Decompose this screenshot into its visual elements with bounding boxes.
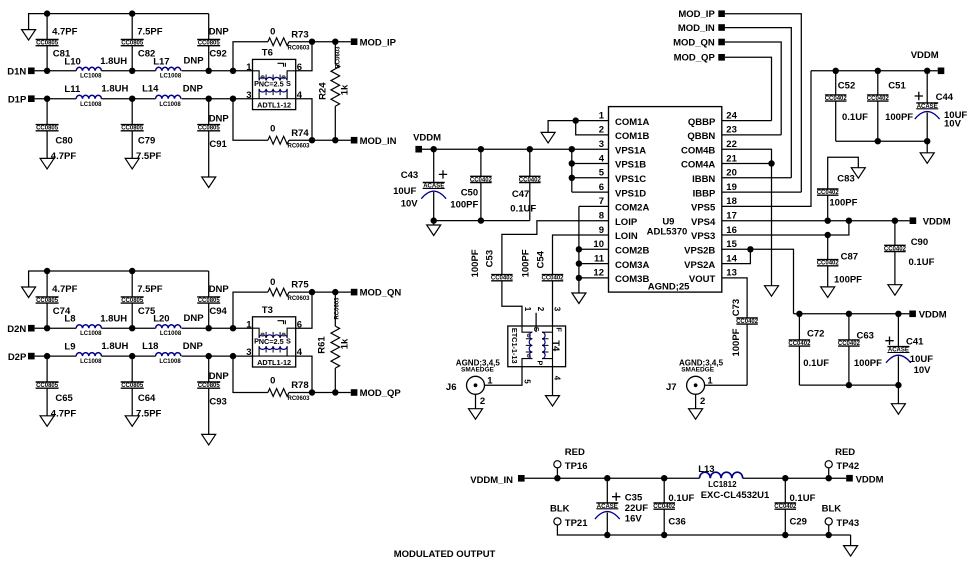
power VDDM output pad: [846, 475, 853, 482]
wire C80 bottom: [46, 131, 48, 159]
svg-text:IBBN: IBBN: [692, 174, 715, 185]
node D2N/C75: [129, 325, 135, 331]
svg-text:MOD_QP: MOD_QP: [360, 388, 402, 399]
node C29/rail: [782, 475, 788, 481]
wire L18 to transformer T3: [182, 355, 253, 357]
svg-text:VPS5: VPS5: [691, 203, 716, 214]
port D1P pad: [28, 95, 35, 102]
svg-text:LC1008: LC1008: [80, 102, 102, 108]
node D1N/R73: [230, 68, 236, 74]
resistor R75 0: [268, 288, 289, 296]
wire pin5 VPS1C: [572, 177, 609, 179]
svg-text:C90: C90: [911, 237, 928, 248]
wire C87 to ground: [827, 266, 829, 287]
svg-text:J7: J7: [666, 382, 677, 393]
wire to ground: [897, 385, 899, 404]
inductor L18 DNP: [156, 353, 181, 357]
svg-text:C64: C64: [138, 393, 156, 404]
wire top bus: [29, 271, 209, 287]
wire pin12 COM3B: [579, 277, 609, 279]
svg-text:L11: L11: [64, 84, 81, 95]
wire L9 to L18: [101, 355, 155, 357]
wire C80 top: [46, 99, 48, 125]
wire C51 bottom: [877, 101, 879, 141]
wire VDDM_IN rail to L13: [525, 477, 700, 479]
wire COM2 tie vertical: [578, 206, 580, 293]
svg-text:VPS1A: VPS1A: [615, 145, 646, 156]
svg-text:0.1UF: 0.1UF: [803, 358, 829, 369]
svg-text:4: 4: [553, 376, 562, 381]
svg-text:RC0603: RC0603: [336, 46, 342, 69]
svg-text:DNP: DNP: [209, 284, 230, 295]
svg-text:19: 19: [726, 182, 737, 193]
capacitor C41 10UF 10V: [897, 314, 899, 347]
svg-text:NC=2.5: NC=2.5: [259, 337, 284, 346]
wire pin20 IBBN: [722, 177, 792, 179]
wire L11 to L14: [101, 98, 155, 100]
svg-text:4.7PF: 4.7PF: [52, 284, 78, 295]
svg-text:C41: C41: [906, 336, 924, 347]
svg-text:LOIP: LOIP: [615, 217, 638, 228]
wire J7 pin1 to C73: [705, 384, 748, 386]
resistor R61 1k: [331, 326, 340, 368]
ground: [427, 225, 441, 236]
svg-text:VPS2B: VPS2B: [684, 246, 715, 257]
wire C44 bottom: [926, 113, 928, 142]
svg-text:RC0603: RC0603: [287, 396, 310, 402]
svg-text:15: 15: [726, 239, 737, 250]
wire C63 bottom: [848, 346, 850, 385]
svg-text:DNP: DNP: [209, 113, 230, 124]
svg-text:C72: C72: [807, 329, 824, 340]
resistor R74 0: [268, 136, 289, 144]
wire C93 bottom: [208, 388, 210, 434]
wire C92 bottom: [208, 46, 210, 71]
svg-text:22: 22: [726, 139, 737, 150]
svg-text:7.5PF: 7.5PF: [136, 151, 162, 162]
wire MOD_IN to IBBN: [725, 28, 791, 178]
svg-text:L20: L20: [153, 314, 169, 325]
svg-text:C65: C65: [55, 393, 73, 404]
svg-text:100PF: 100PF: [731, 328, 742, 356]
node bus/C82: [129, 10, 135, 16]
svg-text:10V: 10V: [944, 118, 962, 129]
svg-text:F: F: [555, 327, 564, 332]
wire R61 bottom lead: [334, 368, 336, 392]
wire C36 bottom: [663, 509, 665, 535]
svg-text:6: 6: [599, 182, 604, 193]
svg-text:NC=2.5: NC=2.5: [259, 79, 284, 88]
svg-text:0.1UF: 0.1UF: [842, 112, 868, 123]
svg-text:0.1UF: 0.1UF: [790, 493, 816, 504]
capacitor C82 7.5PF: [121, 40, 144, 46]
wire transformer pin4 to R74: [296, 99, 312, 141]
svg-text:C54: C54: [535, 250, 546, 268]
wire D2P junction to R78: [233, 356, 268, 392]
inductor L11 1.8UH: [76, 95, 101, 99]
svg-text:100PF: 100PF: [520, 249, 531, 277]
node D1P/R74: [230, 96, 236, 102]
wire C90 to ground: [894, 252, 896, 285]
wire R24 top lead: [334, 42, 336, 64]
svg-text:RC0603: RC0603: [335, 297, 341, 320]
test point TP42 RED: [825, 461, 832, 468]
svg-text:P: P: [536, 360, 545, 365]
svg-text:MOD_QP: MOD_QP: [674, 53, 716, 64]
capacitor C43 10UF 10V: [433, 149, 435, 182]
node R75/transformer pin6: [309, 289, 315, 295]
svg-text:ADTL1-12: ADTL1-12: [257, 358, 291, 367]
svg-text:C35: C35: [625, 492, 643, 503]
svg-text:1.8UH: 1.8UH: [101, 341, 128, 352]
resistor R78 0: [268, 389, 289, 397]
svg-text:RC0603: RC0603: [287, 46, 310, 52]
node C41/gnd: [895, 382, 901, 388]
svg-text:DNP: DNP: [183, 84, 204, 95]
wire COM1A to ground: [548, 121, 576, 133]
node VPS2A/VPS2B: [747, 246, 753, 252]
wire R73 to MOD_IP pad: [289, 41, 351, 43]
test point TP16 RED: [554, 461, 561, 468]
wire pin18 VPS5 to VDDM rail: [722, 71, 811, 207]
wire C82 bottom: [131, 46, 133, 71]
svg-text:C93: C93: [209, 396, 226, 407]
ground: [40, 416, 54, 427]
wire C93 top: [208, 356, 210, 382]
svg-text:D2P: D2P: [8, 352, 27, 363]
ground: [821, 287, 835, 298]
wire MOD_QP to QBBP: [725, 57, 772, 120]
capacitor C93 DNP: [197, 382, 220, 388]
svg-text:MOD_QN: MOD_QN: [673, 37, 715, 48]
power VDDM top-right rail: [811, 70, 938, 72]
svg-text:VPS1B: VPS1B: [615, 160, 646, 171]
inductor L10 1.8UH: [76, 67, 101, 71]
svg-text:J6: J6: [446, 382, 457, 393]
node D2N/C74: [44, 325, 50, 331]
wire C41 bottom: [897, 356, 899, 385]
wire pin17 VPS4 to VDDM: [722, 220, 910, 222]
wire C82 top: [131, 14, 133, 40]
svg-text:4.7PF: 4.7PF: [51, 151, 77, 162]
node D2N/R75: [230, 325, 236, 331]
svg-text:VPS4: VPS4: [691, 217, 716, 228]
svg-text:VDDM: VDDM: [919, 310, 947, 321]
svg-text:R61: R61: [316, 336, 327, 354]
svg-text:IBBP: IBBP: [693, 188, 716, 199]
node VDDM/C50: [478, 146, 484, 152]
svg-text:CC0805: CC0805: [121, 41, 144, 47]
capacitor C90 0.1UF: [894, 221, 896, 246]
node C36/gnd: [661, 532, 667, 538]
ground: [765, 286, 779, 297]
ground: [469, 409, 483, 420]
transformer T4 ETC1-1-13: [508, 326, 566, 367]
svg-text:1.8UH: 1.8UH: [101, 84, 128, 95]
svg-text:RED: RED: [565, 447, 585, 458]
wire C64 top: [131, 356, 133, 382]
wire L17 to transformer T6: [182, 70, 253, 72]
inductor L20 DNP: [156, 325, 181, 329]
svg-text:MODULATED OUTPUT: MODULATED OUTPUT: [394, 549, 496, 560]
wire C94 bottom: [208, 303, 210, 328]
wire C35 bottom: [606, 513, 608, 536]
wire C92 top: [208, 14, 210, 40]
capacitor C64 7.5PF: [121, 382, 144, 388]
node VDDM/C63: [846, 311, 852, 317]
wire L14 to transformer T6: [182, 98, 253, 100]
wire transformer pin4 to R78: [296, 356, 312, 392]
inductor L17 DNP: [156, 67, 181, 71]
svg-text:C47: C47: [512, 189, 529, 200]
wire C52/C51/C44 ground rail: [836, 140, 928, 142]
port VDDM_IN pad: [518, 475, 525, 482]
op-amp U9 ADL5370 body: [609, 107, 722, 293]
svg-text:D2N: D2N: [7, 324, 26, 335]
ground: [202, 434, 216, 445]
svg-text:LC1008: LC1008: [80, 359, 102, 365]
svg-text:RED: RED: [835, 447, 855, 458]
wire D1N to L10: [35, 70, 77, 72]
svg-text:COM1B: COM1B: [615, 131, 649, 142]
wire bottom ground rail: [557, 525, 850, 535]
inductor L13 EXC-CL4532U1: [700, 472, 743, 478]
node TP16/rail: [554, 475, 560, 481]
svg-text:7.5PF: 7.5PF: [136, 408, 162, 419]
wire C83 bottom to VPS4 rail: [827, 195, 829, 221]
svg-text:7.5PF: 7.5PF: [137, 284, 163, 295]
port MOD_QP pad: [351, 389, 358, 396]
wire to ground: [433, 221, 435, 225]
node R78/transformer pin4: [309, 389, 315, 395]
capacitor C73 100PF: [736, 318, 758, 324]
svg-text:T6: T6: [262, 47, 273, 58]
wire pin13 VOUT to C73: [722, 278, 747, 318]
capacitor C92 DNP: [197, 40, 220, 46]
svg-text:VOUT: VOUT: [689, 274, 716, 285]
svg-text:10V: 10V: [401, 198, 419, 209]
wire T4 pin5 to J6: [485, 367, 523, 386]
svg-text:C80: C80: [55, 136, 72, 147]
ground: [888, 285, 902, 296]
wire C81 bottom: [46, 46, 48, 71]
wire C79 bottom: [131, 131, 133, 159]
wire D1P junction to R74: [233, 99, 268, 141]
ground: [689, 409, 703, 420]
svg-text:C91: C91: [209, 139, 227, 150]
node bus/C75: [129, 268, 135, 274]
svg-text:3: 3: [246, 347, 251, 358]
svg-text:100PF: 100PF: [470, 249, 481, 277]
svg-text:BLK: BLK: [822, 503, 842, 514]
wire pin24 QBBP: [722, 120, 772, 122]
svg-text:20: 20: [726, 168, 737, 179]
svg-text:100PF: 100PF: [854, 358, 882, 369]
ground: [541, 132, 555, 143]
svg-text:TP43: TP43: [836, 518, 859, 529]
capacitor C50 100PF: [480, 149, 482, 176]
node COM1A/COM1B: [573, 117, 579, 123]
wire C29 bottom: [784, 509, 786, 535]
svg-text:10V: 10V: [914, 365, 932, 376]
svg-text:17: 17: [726, 211, 737, 222]
svg-text:COM2A: COM2A: [615, 203, 649, 214]
wire C75 bottom: [131, 303, 133, 328]
wire LOIN to C54: [553, 235, 609, 275]
wire D1N junction to R73: [233, 42, 268, 71]
node C35/rail: [604, 475, 610, 481]
wire L13 to VDDM out: [743, 477, 847, 479]
test point TP43 BLK: [825, 518, 832, 525]
node C83/VPS4: [825, 218, 831, 224]
port MOD_IN pad: [351, 137, 358, 144]
wire pin7 COM2A: [579, 205, 609, 207]
svg-text:T4: T4: [550, 340, 561, 352]
wire C75 top: [131, 271, 133, 297]
svg-text:DNP: DNP: [209, 371, 230, 382]
svg-text:5: 5: [599, 168, 605, 179]
capacitor C72 0.1UF: [798, 314, 800, 340]
node D1N/C92: [206, 68, 212, 74]
node TP42/rail: [826, 475, 832, 481]
svg-text:14: 14: [726, 253, 737, 264]
svg-text:0: 0: [270, 123, 275, 134]
capacitor C54 100PF: [542, 275, 564, 281]
svg-text:1: 1: [487, 375, 493, 386]
ground: [891, 404, 905, 415]
node COM3A junction: [576, 260, 582, 266]
svg-text:VDDM_IN: VDDM_IN: [470, 475, 513, 486]
power VDDM pad: [415, 146, 422, 153]
node C29/gnd: [782, 532, 788, 538]
svg-text:C87: C87: [841, 251, 858, 262]
wire MOD_IP to IBBP: [725, 14, 801, 192]
capacitor C52 0.1UF: [835, 71, 837, 95]
svg-text:DNP: DNP: [184, 55, 205, 66]
power VDDM lower-right rail: [794, 313, 910, 315]
wire pin19 IBBP: [722, 191, 802, 193]
wire J6 pin2 to ground: [475, 394, 477, 408]
svg-text:MOD_IN: MOD_IN: [360, 136, 397, 147]
node R74/R24: [332, 137, 338, 143]
svg-text:L10: L10: [64, 56, 80, 67]
svg-text:L9: L9: [64, 342, 75, 353]
port D2P pad: [28, 353, 35, 360]
svg-text:7.5PF: 7.5PF: [137, 27, 163, 38]
svg-text:3: 3: [599, 139, 604, 150]
node VPS1C junction: [569, 175, 575, 181]
svg-text:22UF: 22UF: [625, 503, 648, 514]
wire to ground: [926, 141, 928, 153]
ground: [851, 168, 865, 179]
svg-text:1.8UH: 1.8UH: [100, 56, 127, 67]
svg-text:QBBN: QBBN: [687, 131, 715, 142]
inductor L14 DNP: [156, 95, 181, 99]
svg-text:1: 1: [523, 307, 532, 312]
ground: [572, 293, 586, 304]
svg-text:10: 10: [593, 239, 604, 250]
wire C79 top: [131, 99, 133, 125]
wire D2N junction to R75: [233, 292, 268, 328]
svg-text:BLK: BLK: [550, 503, 570, 514]
node C43/gnd rail: [431, 217, 437, 223]
svg-text:1: 1: [246, 62, 252, 73]
wire C72 bottom: [798, 346, 800, 385]
svg-text:SMAEDGE: SMAEDGE: [681, 367, 715, 374]
svg-text:MOD_QN: MOD_QN: [360, 288, 402, 299]
node D2N/C94: [206, 325, 212, 331]
svg-text:MOD_IN: MOD_IN: [678, 23, 715, 34]
svg-text:LC1008: LC1008: [159, 359, 181, 365]
wire C83 top to ground: [828, 157, 859, 189]
svg-text:L14: L14: [142, 84, 159, 95]
resistor R24 1k: [331, 64, 340, 106]
svg-text:MOD_IP: MOD_IP: [360, 37, 397, 48]
port MOD_QN pad: [351, 289, 358, 296]
svg-text:16V: 16V: [625, 513, 643, 524]
svg-text:CC0805: CC0805: [198, 41, 221, 47]
svg-text:VPS3: VPS3: [691, 231, 715, 242]
node VPS1B junction: [569, 160, 575, 166]
node C36/rail: [661, 475, 667, 481]
node VDDM/C47: [527, 146, 533, 152]
wire pin22 COM4B to ground: [722, 149, 772, 286]
wire C94 top: [208, 271, 210, 297]
svg-text:1: 1: [599, 110, 605, 121]
svg-text:C36: C36: [668, 517, 685, 528]
svg-text:1k: 1k: [340, 84, 351, 95]
svg-text:C50: C50: [461, 188, 478, 199]
svg-text:1.8UH: 1.8UH: [100, 313, 127, 324]
svg-text:100PF: 100PF: [834, 274, 862, 285]
node VDDM/C43: [431, 146, 437, 152]
wire C65 top: [46, 356, 48, 382]
svg-text:0.1UF: 0.1UF: [510, 204, 536, 215]
capacitor C79 7.5PF: [121, 125, 144, 131]
svg-text:S: S: [286, 337, 291, 346]
node C90/VPS4: [892, 218, 898, 224]
svg-text:S: S: [532, 327, 541, 332]
svg-text:0: 0: [270, 376, 275, 387]
svg-text:9: 9: [599, 225, 604, 236]
capacitor C94 DNP: [197, 297, 220, 303]
wire transformer pin6 to R73: [296, 42, 312, 71]
ground: [22, 30, 36, 40]
node R75/R61: [332, 289, 338, 295]
node R73/R24: [332, 39, 338, 45]
ground: [202, 177, 216, 188]
ground: [125, 416, 139, 427]
inductor L8 1.8UH: [76, 325, 101, 329]
svg-text:11: 11: [594, 253, 605, 264]
node R73/transformer pin6: [309, 39, 315, 45]
svg-text:13: 13: [726, 268, 737, 279]
svg-text:ETC1-1-13: ETC1-1-13: [510, 328, 519, 364]
svg-text:21: 21: [726, 153, 737, 164]
wire MOD_QN to QBBN: [725, 42, 781, 135]
svg-text:R73: R73: [291, 29, 308, 40]
node VPS3/VPS4: [846, 218, 852, 224]
svg-text:12: 12: [593, 268, 604, 279]
wire LOIP to C53: [502, 221, 609, 275]
svg-text:2: 2: [536, 307, 545, 312]
ground: [125, 158, 139, 169]
svg-text:D1N: D1N: [7, 67, 26, 78]
wire transformer pin6 to R75: [296, 292, 312, 328]
svg-text:COM2B: COM2B: [615, 246, 649, 257]
capacitor C81 4.7PF: [36, 40, 59, 46]
wire L10 to L17: [101, 70, 155, 72]
